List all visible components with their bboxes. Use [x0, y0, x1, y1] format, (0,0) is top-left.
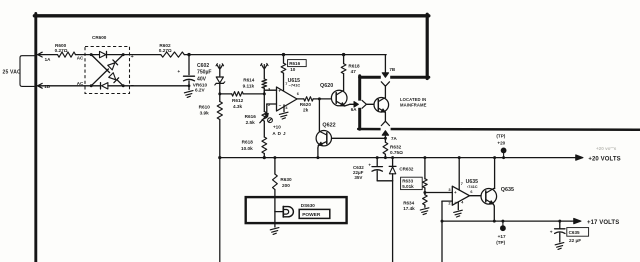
svg-text:DS630: DS630: [301, 203, 315, 208]
svg-text:AC: AC: [77, 81, 84, 86]
svg-text:+17: +17: [498, 234, 506, 239]
wire pin2 U635 feedback: [441, 201, 453, 262]
wire Q620 collector to R618-47: [343, 74, 345, 91]
svg-text:40V: 40V: [197, 76, 207, 82]
capacitor C602: [177, 55, 211, 90]
resistor R614: [243, 78, 267, 112]
svg-text:R633: R633: [402, 179, 413, 184]
svg-text:CR632: CR632: [399, 167, 414, 172]
arrow +20 VOLTS: [575, 155, 620, 163]
svg-text:LOCATED IN: LOCATED IN: [400, 97, 426, 102]
svg-text:+: +: [278, 88, 281, 93]
board border top edge: [34, 14, 428, 17]
bridge rectifier CR600 dashed box: [85, 35, 130, 94]
svg-text:R634: R634: [403, 200, 414, 205]
wire +20V rail: [218, 156, 575, 262]
label AC bottom: [77, 81, 84, 86]
svg-text:POWER: POWER: [302, 212, 321, 218]
wire unregulated + rail: [123, 54, 386, 56]
resistor R618 47: [341, 53, 360, 74]
wire mainframe emitter to 7A: [384, 112, 386, 121]
svg-text:6A: 6A: [351, 107, 358, 112]
resistor R600: [55, 43, 76, 57]
capacitor C632: [353, 156, 382, 181]
wire mainframe collector to 7B: [384, 86, 386, 98]
resistor R618 10k: [241, 137, 267, 158]
wire +17V rail: [442, 220, 571, 222]
resistor R633 boxed: [401, 156, 428, 195]
wire U635 output: [470, 195, 482, 197]
board border bottom-right edge: [358, 128, 640, 131]
svg-text:R610: R610: [199, 104, 211, 109]
bridge corner nodes: [90, 53, 125, 87]
svg-text:R612: R612: [232, 98, 244, 103]
svg-text:6: 6: [470, 190, 472, 194]
svg-text:R618: R618: [348, 63, 360, 68]
svg-text:AC: AC: [77, 56, 84, 61]
svg-text:1A: 1A: [45, 57, 52, 62]
bridge + output label: [131, 54, 134, 60]
potentiometer R616 +10 ADJ: [245, 112, 286, 138]
svg-text:+: +: [177, 70, 180, 75]
svg-text:−741C: −741C: [289, 83, 301, 88]
board border notch left edge: [358, 76, 361, 129]
resistor R610: [199, 94, 223, 158]
svg-text:+17 VOLTS: +17 VOLTS: [587, 220, 619, 226]
svg-text:7B: 7B: [389, 67, 396, 72]
test point +20: [496, 134, 506, 160]
ground at C602: [184, 91, 193, 98]
wire Q622 emitter to rail: [316, 145, 319, 159]
board border left edge: [34, 14, 37, 262]
node divider to pin3: [263, 92, 266, 95]
terminal 1B arrow: [38, 83, 51, 89]
transistor Q635: [481, 187, 514, 204]
svg-text:6.2V: 6.2V: [195, 87, 206, 92]
transistor Q622: [316, 123, 335, 146]
svg-text:25 VAC: 25 VAC: [3, 70, 22, 76]
svg-text:MAINFRAME: MAINFRAME: [400, 102, 427, 107]
capacitor C635: [550, 220, 589, 243]
wire Q635 emitter: [493, 204, 496, 223]
svg-text:9.11k: 9.11k: [243, 83, 255, 88]
svg-text:6: 6: [297, 92, 299, 96]
svg-text:+20: +20: [497, 141, 505, 146]
board border notch right edge: [426, 14, 429, 78]
svg-text:7A: 7A: [391, 136, 398, 141]
svg-text:R630: R630: [280, 177, 292, 182]
resistor R602: [159, 43, 185, 57]
svg-text:C602: C602: [197, 63, 209, 69]
ground at C635: [555, 243, 564, 250]
svg-text:Q620: Q620: [320, 83, 333, 89]
svg-text:0.75Ω: 0.75Ω: [390, 150, 403, 155]
svg-text:750µF: 750µF: [197, 70, 212, 76]
svg-text:CR600: CR600: [92, 35, 107, 40]
power lamp box: [246, 197, 347, 223]
wire pin2 U615 from wiper: [267, 104, 277, 116]
node R633/R634: [423, 191, 426, 194]
svg-text:Q622: Q622: [322, 123, 335, 129]
svg-text:A D J: A D J: [272, 131, 286, 136]
svg-text:R614: R614: [243, 78, 255, 83]
svg-text:3.9k: 3.9k: [200, 111, 210, 116]
ghost smudge text: [596, 146, 617, 151]
diode CR632: [389, 156, 414, 181]
resistor R634: [403, 195, 427, 212]
lamp DS630: [275, 203, 315, 217]
connector pin 7A: [381, 121, 397, 142]
svg-text:2k: 2k: [303, 107, 309, 112]
svg-text:(TP): (TP): [496, 240, 505, 245]
connector pin 6A: [351, 100, 374, 112]
wire Q622 collector: [318, 99, 320, 131]
svg-text:2.5k: 2.5k: [246, 120, 256, 125]
node R620 / Q622 collector: [318, 97, 321, 100]
svg-text:0.27Ω: 0.27Ω: [159, 48, 172, 53]
svg-text:Q635: Q635: [501, 187, 514, 193]
svg-text:−: −: [279, 103, 282, 108]
resistor R612: [220, 92, 264, 109]
op-amp U615: [268, 78, 300, 111]
wire bridge - to ground: [123, 85, 189, 87]
supply arrow above R614: [261, 63, 269, 79]
wire U615 output: [297, 98, 331, 100]
ground below lamp: [270, 223, 279, 234]
test point +17: [496, 220, 506, 245]
svg-text:+: +: [368, 163, 371, 168]
ground at U615 pin4: [279, 105, 288, 119]
ground at U635 pin4: [454, 202, 463, 217]
svg-text:‹741C: ‹741C: [467, 184, 478, 189]
bridge diagonal diode TL-BR: [91, 55, 123, 86]
svg-text:10: 10: [290, 67, 296, 72]
svg-text:+20 VOLTS: +20 VOLTS: [588, 157, 620, 163]
wire Q635 collector: [493, 156, 496, 188]
svg-text:47: 47: [351, 69, 357, 74]
svg-text:R620: R620: [300, 102, 312, 107]
transistor Q620: [320, 83, 347, 106]
svg-text:7: 7: [461, 182, 463, 186]
svg-text:C635: C635: [569, 230, 580, 235]
svg-text:7: 7: [285, 82, 287, 86]
svg-text:22 µF: 22 µF: [569, 238, 581, 243]
svg-text:R632: R632: [390, 145, 402, 150]
bridge bottom edge diode: [91, 83, 123, 89]
supply arrow above VR610: [216, 64, 224, 76]
svg-text:200: 200: [282, 183, 290, 188]
wire 1B to bridge: [38, 85, 92, 87]
svg-text:0.27Ω: 0.27Ω: [55, 48, 68, 53]
svg-text:+: +: [550, 230, 553, 235]
svg-text:10.0k: 10.0k: [241, 146, 253, 151]
wire U635 pin7 to rail: [458, 156, 461, 190]
svg-text:35V: 35V: [354, 175, 362, 180]
label located in mainframe: [400, 97, 427, 107]
board border notch bottom edge: [360, 76, 429, 79]
svg-text:(TP): (TP): [496, 134, 505, 139]
svg-text:R616: R616: [289, 61, 300, 66]
junction C602 rail: [187, 53, 190, 87]
svg-text:−: −: [454, 199, 457, 204]
input bracket 25 VAC: [20, 56, 34, 87]
svg-text:+: +: [454, 190, 457, 195]
svg-text:R618: R618: [242, 140, 254, 145]
resistor R620: [300, 97, 313, 113]
node zener / R610 / R612: [218, 92, 221, 95]
wire 1A to bridge: [38, 54, 92, 56]
svg-text:17.4k: 17.4k: [403, 206, 415, 211]
wire Q622 base: [332, 137, 386, 139]
resistor R616 10 boxed (op-amp supply): [281, 53, 306, 91]
bridge top edge diode: [91, 51, 123, 57]
resistor R630: [273, 156, 292, 223]
node 7A / Q622 base: [384, 137, 387, 140]
wire pin3 U615: [264, 90, 276, 94]
zener VR610: [193, 77, 225, 94]
op-amp U635: [448, 179, 478, 206]
label POWER boxed: [299, 209, 330, 218]
wire C632/CR632 to off-page: [377, 181, 392, 262]
svg-text:+10: +10: [273, 125, 281, 130]
terminal 1A arrow: [38, 52, 52, 62]
svg-text:4.3k: 4.3k: [233, 104, 243, 109]
resistor R632: [383, 142, 403, 159]
svg-text:R616: R616: [245, 114, 257, 119]
ground at R634: [420, 208, 429, 215]
wire pin3 U635: [425, 192, 452, 194]
transistor Q621 located in mainframe: [374, 98, 389, 113]
label AC top: [77, 56, 84, 61]
bridge diagonal diode BL-TR: [91, 55, 123, 86]
label 25 VAC: [3, 70, 22, 76]
wire Q620 emitter to 6A: [345, 104, 355, 106]
bridge - output label: [131, 83, 134, 89]
svg-text:+20 vo′″s: +20 vo′″s: [596, 146, 617, 151]
svg-text:5.01k: 5.01k: [402, 184, 414, 189]
connector pin 7B: [381, 55, 396, 87]
arrow +17 VOLTS: [571, 218, 619, 226]
